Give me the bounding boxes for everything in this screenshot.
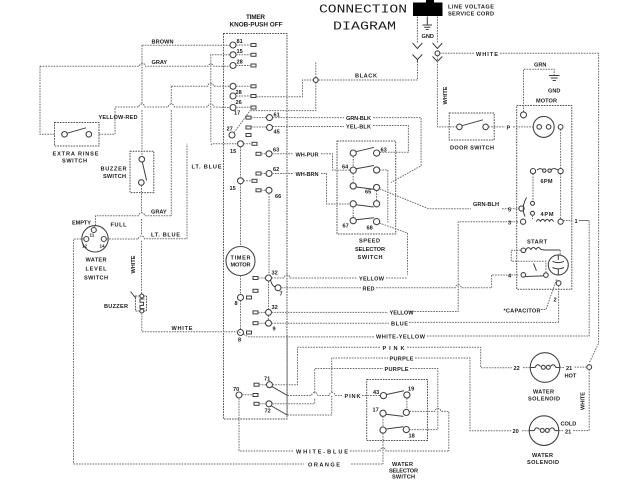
svg-text:SOLENOID: SOLENOID	[528, 397, 560, 403]
water selector contact 17	[373, 408, 387, 417]
svg-text:28: 28	[237, 60, 243, 66]
svg-text:4PM: 4PM	[541, 212, 554, 218]
svg-text:72: 72	[265, 409, 271, 415]
svg-text:15: 15	[230, 186, 236, 192]
timer contact 15b	[230, 141, 244, 155]
timer contact 66	[266, 187, 281, 200]
blade arc at terminal 5	[523, 198, 526, 217]
svg-text:32: 32	[272, 271, 278, 277]
svg-text:FULL: FULL	[111, 223, 128, 229]
wire yellow-red to contact 17	[115, 104, 230, 108]
water selector contact 18	[403, 427, 415, 440]
svg-text:PURPLE: PURPLE	[390, 357, 414, 363]
blade 72 to purple1 run	[272, 406, 288, 415]
label SPEED SELECTOR SWITCH	[355, 239, 385, 262]
speed selector contact R4	[374, 201, 380, 207]
timer contact 8b	[238, 330, 244, 344]
svg-text:PINK: PINK	[345, 394, 361, 400]
pin plug 28	[251, 64, 256, 67]
svg-text:MOTOR: MOTOR	[536, 99, 557, 105]
ground symbol GND (motor)	[548, 76, 560, 95]
wire purple2: contact 72 to water selector 18	[272, 369, 438, 430]
wire 65R diagonal to grn-blh run to motor 5	[380, 189, 519, 209]
wire 66 to 32a to 32b to 9	[268, 193, 271, 320]
water selector contact 43	[373, 390, 387, 399]
timer contact 26	[230, 93, 242, 106]
svg-text:SERVICE CORD: SERVICE CORD	[448, 12, 494, 18]
wire lower contact to 4PM row	[532, 215, 534, 219]
svg-text:GRN-BLH: GRN-BLH	[473, 202, 499, 208]
wire brown from buzzer riser to contact 81	[142, 44, 230, 46]
wire white-yellow: timer edge to motor terminal 1 riser	[243, 221, 589, 337]
timer contact 81	[230, 39, 243, 48]
wire grn-blk: contact 61 to speed selector 65R	[273, 118, 422, 183]
wire white: node to door switch	[437, 56, 456, 127]
svg-text:12: 12	[82, 244, 88, 249]
svg-text:WHITE: WHITE	[581, 392, 587, 410]
svg-text:LT. BLUE: LT. BLUE	[151, 233, 180, 239]
svg-text:70: 70	[233, 387, 239, 393]
wire white-blue: contact 70 to riser	[239, 398, 449, 451]
svg-text:81: 81	[237, 39, 243, 45]
svg-text:SWITCH: SWITCH	[103, 174, 126, 180]
wire black: contacts 26,17 to service cord left lead	[250, 62, 417, 111]
wire timer motor to contact 8a to 8b	[240, 276, 242, 330]
svg-text:9: 9	[273, 327, 276, 333]
pin plug 63	[256, 152, 261, 155]
arm upper contact	[531, 201, 535, 205]
svg-text:KNOB-PUSH OFF: KNOB-PUSH OFF	[230, 22, 283, 29]
wire 27 to 45 plug	[234, 111, 250, 133]
svg-text:TIMER: TIMER	[231, 256, 251, 262]
blade L3 to 65R	[356, 187, 373, 189]
timer contact 72	[265, 401, 273, 415]
svg-text:BLUE: BLUE	[391, 322, 408, 328]
wire white top: node to right riser	[440, 53, 599, 363]
svg-text:WATER: WATER	[392, 462, 413, 468]
svg-text:SWITCH: SWITCH	[62, 159, 87, 165]
blade 71 to pink2 junction	[272, 387, 288, 396]
timer contact 45	[267, 125, 280, 136]
wire yellow1: contact 32a to speed selector 68 riser	[272, 275, 408, 278]
svg-text:26: 26	[236, 100, 242, 106]
wire 28b from riser	[171, 83, 230, 86]
svg-text:SWITCH: SWITCH	[84, 276, 108, 282]
svg-text:WATER: WATER	[532, 453, 553, 459]
svg-text:WHITE: WHITE	[443, 86, 449, 104]
svg-text:WHITE: WHITE	[131, 255, 137, 273]
svg-text:8: 8	[235, 301, 238, 307]
water selector switch box	[367, 380, 428, 441]
svg-text:WATER: WATER	[86, 258, 107, 264]
wire timer edge down-link for white-yellow	[286, 336, 288, 415]
node hot solenoid junction	[587, 365, 592, 370]
wire pink: contact 71 riser to hot solenoid	[273, 347, 513, 385]
svg-text:18: 18	[409, 434, 415, 440]
wire buzzer riser (brown down to buzzer switch)	[141, 45, 143, 159]
wire cold solenoid right stub	[522, 430, 576, 432]
timer contact 27	[227, 127, 236, 139]
node: white junction at service cord	[435, 51, 440, 56]
wire blue: contact 9 to motor terminal 2	[272, 321, 559, 324]
svg-text:7: 7	[280, 292, 283, 298]
wire R2 to white-blue riser	[409, 408, 448, 451]
svg-text:BLACK: BLACK	[355, 74, 377, 80]
speed selector contact L4	[350, 201, 356, 207]
svg-text:6PM: 6PM	[541, 179, 553, 185]
svg-text:RED: RED	[363, 286, 375, 292]
svg-text:63: 63	[273, 148, 279, 154]
pin plug 8b	[247, 331, 252, 334]
label TIMER KNOB-PUSH OFF	[230, 14, 283, 29]
arm lower contact	[531, 211, 535, 215]
timer box	[224, 34, 288, 420]
svg-text:63: 63	[381, 148, 387, 154]
wire grn: motor terminal to ground	[524, 69, 555, 112]
svg-text:BROWN: BROWN	[152, 40, 174, 46]
svg-text:YELLOW: YELLOW	[390, 311, 415, 317]
blade 43 to 19	[387, 391, 405, 395]
wire purple1: 72 blade run to cold solenoid	[287, 358, 512, 431]
water selector contact R2	[403, 409, 409, 415]
wire wh-pur: contact 63 to speed selector 64L	[272, 154, 350, 170]
svg-text:SWITCH: SWITCH	[358, 255, 383, 261]
wire 68 to yellow riser	[380, 223, 408, 275]
timer contact 28	[230, 60, 243, 69]
capacitor circle	[548, 255, 568, 275]
timer motor	[226, 247, 255, 276]
svg-text:PURPLE: PURPLE	[385, 367, 409, 373]
label COLD 21	[561, 422, 577, 436]
pin plug 26	[251, 95, 256, 98]
svg-text:27: 27	[227, 127, 233, 133]
service cord right lead wire	[436, 17, 438, 43]
motor terminal 5	[508, 206, 524, 214]
svg-text:14: 14	[100, 244, 106, 249]
wire 19 to R2	[406, 398, 408, 409]
hot water solenoid	[528, 353, 560, 403]
water selector contact 19	[404, 387, 414, 399]
svg-text:GRAY: GRAY	[152, 60, 168, 66]
speed selector contact 65R	[365, 184, 380, 195]
svg-text:22: 22	[514, 366, 520, 372]
start switch U loop	[511, 250, 546, 272]
svg-text:11: 11	[90, 233, 95, 238]
pin plug 7 row	[253, 289, 258, 292]
svg-text:CONNECTION: CONNECTION	[319, 3, 407, 17]
wire buzzer bottom to white run to contact 8b	[142, 313, 241, 333]
svg-text:BUZZER: BUZZER	[104, 304, 128, 310]
pin plug 62	[256, 172, 261, 175]
svg-text:SPEED: SPEED	[359, 239, 380, 245]
wire contact stubs to plugs	[236, 45, 267, 404]
wire gray2: WLS top terminal to 28b riser	[94, 213, 172, 228]
wire 4PM right to terminal 1 riser	[563, 220, 589, 222]
svg-text:PINK: PINK	[383, 346, 405, 352]
svg-text:19: 19	[408, 387, 414, 393]
blade 17 to R2	[386, 414, 403, 416]
left lead mating fork	[413, 55, 423, 63]
svg-text:21: 21	[565, 429, 571, 435]
svg-text:20: 20	[513, 429, 519, 435]
timer contact 9	[266, 320, 276, 332]
timer contact 15c	[230, 178, 244, 192]
svg-text:GND: GND	[422, 34, 434, 40]
pin plug 72	[254, 402, 259, 405]
wire door switch to motor P terminal	[488, 126, 533, 128]
wire terminal 2 down to blue	[558, 286, 560, 323]
wire 64L to L3	[352, 173, 354, 183]
timer contact 8a	[235, 295, 244, 308]
pin plug 32b	[253, 311, 258, 314]
timer contact 71	[264, 377, 273, 388]
pin plug 15	[251, 53, 256, 56]
svg-text:28: 28	[236, 90, 242, 96]
svg-text:2: 2	[554, 298, 557, 304]
svg-text:5: 5	[508, 208, 511, 214]
svg-text:GRN: GRN	[534, 63, 546, 69]
svg-text:LT. BLUE: LT. BLUE	[192, 165, 222, 171]
pin plug 61	[246, 116, 251, 119]
wire node down to cold solenoid	[576, 370, 589, 431]
svg-text:MOTOR: MOTOR	[231, 263, 251, 269]
svg-text:WATER: WATER	[533, 390, 554, 396]
svg-text:P: P	[507, 126, 511, 132]
timer contact 70	[233, 387, 242, 398]
pin plug 70 row	[253, 394, 258, 397]
svg-text:SWITCH: SWITCH	[392, 475, 415, 480]
wire 15a to 15b riser	[211, 55, 238, 145]
speed selector contact 67	[343, 218, 357, 230]
wire 15b to 15c to timer motor	[240, 147, 242, 247]
wire R2 to 68 junction	[380, 170, 388, 223]
pin plug 45	[246, 126, 251, 129]
svg-text:45: 45	[274, 130, 280, 136]
blade BL to 18	[386, 427, 403, 429]
4PM contact	[508, 212, 563, 227]
pin plug 15b	[252, 142, 257, 145]
cold water solenoid	[527, 416, 559, 466]
right lead arrowhead	[433, 43, 443, 49]
6PM contact	[530, 169, 563, 186]
wire wh-brn: contact 62 to speed selector L4	[272, 174, 350, 205]
ground symbol GND (service cord)	[422, 17, 434, 41]
timer contact 17	[230, 105, 240, 117]
wire WLS terminal 12 to orange run	[74, 239, 84, 464]
svg-text:15: 15	[230, 149, 236, 155]
svg-text:HOT: HOT	[565, 374, 577, 380]
pin plug 8a	[247, 296, 252, 299]
svg-text:32: 32	[272, 305, 278, 311]
label WATER SELECTOR SWITCH	[389, 462, 418, 480]
svg-text:62: 62	[273, 167, 279, 173]
svg-text:TIMER: TIMER	[246, 14, 265, 21]
pin plug 17	[251, 106, 256, 109]
speed selector switch box	[337, 141, 396, 234]
node black junction	[313, 78, 318, 83]
speed selector contact L3	[350, 183, 356, 189]
line voltage service cord black box	[413, 0, 494, 18]
svg-text:GRAY: GRAY	[151, 210, 167, 216]
wire pink2: 71 blade to water selector 43	[288, 393, 381, 396]
wire motor right terminal down to 6PM	[560, 129, 562, 168]
svg-text:BUZZER: BUZZER	[101, 167, 127, 173]
pin plug 9	[253, 322, 258, 325]
svg-text:COLD: COLD	[561, 422, 577, 428]
wire orange bottom run	[74, 463, 384, 465]
timer contact 61	[267, 113, 280, 121]
blade L4 to R4	[356, 205, 373, 207]
wire L4 to 67	[352, 207, 354, 218]
timer contact 28b	[230, 83, 242, 96]
timer contact 7	[275, 285, 283, 298]
svg-text:YELLOW: YELLOW	[359, 277, 385, 283]
svg-text:68: 68	[367, 226, 373, 232]
wire hot solenoid right to node	[523, 366, 587, 369]
start blade	[526, 263, 544, 276]
svg-text:SELECTOR: SELECTOR	[355, 247, 385, 253]
wire gray to contact 28	[40, 63, 230, 66]
wire 65R to R4	[376, 191, 378, 201]
wire red: contact 7 to motor terminal 4	[281, 275, 519, 288]
svg-text:17: 17	[234, 111, 240, 117]
speed selector contact 68	[367, 219, 380, 232]
pin plug 28b	[251, 85, 256, 88]
timer contact 15	[230, 49, 243, 58]
start blade pivot contact	[544, 273, 549, 278]
svg-text:8: 8	[238, 338, 241, 344]
wire yel-blk: contact 45 to speed selector 63R	[273, 126, 409, 153]
timer contact 32b	[266, 305, 278, 315]
svg-text:15: 15	[237, 49, 243, 55]
buzzer	[104, 292, 147, 314]
svg-text:64: 64	[342, 165, 349, 171]
svg-text:1: 1	[575, 219, 578, 225]
motor terminal 2	[556, 281, 561, 286]
pin plug 71	[254, 383, 259, 386]
label 21 HOT	[565, 366, 577, 380]
svg-text:EMPTY: EMPTY	[72, 221, 91, 227]
svg-text:WH-BRN: WH-BRN	[296, 172, 319, 178]
right lead mating fork	[433, 57, 443, 62]
label *CAPACITOR with pointer	[504, 280, 557, 315]
svg-text:17: 17	[373, 408, 379, 414]
timer contact 62	[266, 167, 279, 177]
wire extra rinse left to gray riser	[40, 66, 55, 134]
motor grn terminal	[521, 112, 527, 118]
svg-text:START: START	[527, 240, 548, 246]
wire extra rinse right riser yellow-red	[99, 107, 115, 134]
blade 64L to R2	[356, 166, 374, 169]
wire start coil right down to capacitor circle	[559, 250, 561, 255]
wire yellow2: contact 32b to motor terminal 3 riser	[272, 222, 520, 313]
wire 6PM right down to 4PM right	[560, 174, 562, 219]
svg-text:SOLENOID: SOLENOID	[527, 460, 559, 466]
extra rinse switch	[53, 123, 100, 165]
pin plug 66	[256, 189, 261, 192]
svg-text:DIAGRAM: DIAGRAM	[333, 20, 396, 34]
pin plug 27 row	[246, 134, 251, 137]
svg-text:65: 65	[365, 190, 371, 196]
blade L1 to 63R	[356, 147, 374, 151]
pin plug 32a	[253, 277, 258, 280]
svg-text:67: 67	[343, 224, 349, 230]
svg-text:WHITE: WHITE	[172, 326, 193, 332]
door switch box	[449, 113, 494, 152]
speed selector contact 64L	[342, 165, 356, 174]
title CONNECTION DIAGRAM	[319, 3, 407, 34]
svg-text:EXTRA RINSE: EXTRA RINSE	[53, 152, 99, 158]
svg-text:GND: GND	[548, 89, 560, 95]
blade 32a to 7	[271, 280, 276, 287]
wire lt blue: WLS terminal 14 to riser 15b	[106, 144, 187, 239]
svg-text:LEVEL: LEVEL	[86, 267, 108, 273]
timer contact 63	[266, 148, 279, 157]
svg-text:LINE VOLTAGE: LINE VOLTAGE	[448, 5, 494, 11]
wire L1 to 64L	[352, 156, 354, 167]
svg-text:71: 71	[264, 377, 270, 383]
svg-text:3: 3	[508, 221, 511, 227]
svg-text:YEL-BLK: YEL-BLK	[346, 125, 371, 131]
start coil	[521, 248, 560, 253]
pin plug 81	[251, 44, 256, 47]
speed selector contact R2	[374, 167, 380, 173]
svg-text:WHITE: WHITE	[476, 52, 498, 58]
svg-text:21: 21	[566, 366, 572, 372]
motor main circle	[533, 116, 554, 137]
blade 67 to 68	[356, 218, 374, 220]
left lead arrowhead	[413, 43, 423, 49]
svg-text:66: 66	[275, 194, 281, 200]
wire riser 28b down to gray2	[170, 86, 172, 216]
timer contact 32a	[266, 271, 278, 282]
svg-text:GRN-BLK: GRN-BLK	[346, 116, 371, 122]
water selector contact BL	[380, 427, 386, 433]
speed selector contact 63R	[374, 148, 387, 157]
motor box	[517, 106, 572, 290]
svg-text:*CAPACITOR: *CAPACITOR	[504, 309, 541, 315]
buzzer switch	[101, 151, 154, 192]
wire buzzer switch down to buzzer	[141, 185, 143, 296]
service cord left lead wire	[416, 17, 418, 43]
wire 6PM left down to upper arm contact	[532, 174, 534, 201]
svg-text:DOOR SWITCH: DOOR SWITCH	[450, 146, 494, 152]
speed selector contact L1	[350, 150, 356, 156]
water level switch	[72, 221, 127, 282]
motor terminal 4	[508, 273, 526, 280]
motor right terminal	[558, 125, 563, 130]
pin plug 15c	[252, 179, 257, 182]
wire 17 down through BL to orange riser	[382, 416, 384, 464]
svg-text:43: 43	[373, 390, 379, 396]
svg-text:YELLOW-RED: YELLOW-RED	[99, 115, 138, 121]
svg-text:WHITE-YELLOW: WHITE-YELLOW	[376, 334, 426, 340]
svg-text:WH-PUR: WH-PUR	[296, 152, 319, 158]
